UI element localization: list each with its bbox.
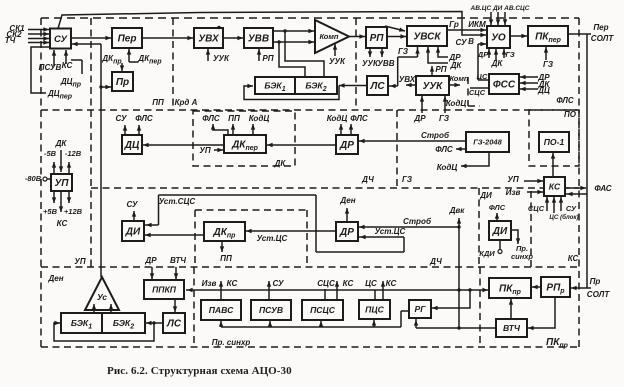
block SU: [50, 29, 71, 49]
arrow KS out of UP bottom: [59, 191, 63, 212]
svg-text:СУ: СУ: [115, 114, 127, 123]
svg-text:ГЗ: ГЗ: [398, 47, 409, 56]
arrow DR into UO bottom: [487, 49, 491, 58]
arrow bus up into PCS: [372, 320, 376, 327]
svg-text:ГЗ: ГЗ: [402, 175, 412, 184]
wire UVV to Comp upper: [273, 29, 314, 33]
svg-text:ДИ: ДИ: [125, 227, 141, 238]
block UVH: [194, 28, 223, 48]
arrow FLS up from DKper: [211, 124, 228, 135]
section label FLS: [556, 96, 574, 105]
label Strob: [421, 131, 450, 140]
block DKper: [224, 135, 266, 153]
block Per: [112, 28, 142, 48]
section divider x91 (UP | PP): [90, 18, 92, 267]
label FLS above DKper: [202, 114, 220, 123]
svg-text:ДЦ: ДЦ: [124, 140, 140, 151]
dashed jog near FSS: [468, 77, 480, 106]
svg-text:Пер: Пер: [593, 23, 608, 32]
label DR under UUK: [413, 114, 426, 123]
svg-text:Строб: Строб: [403, 217, 432, 226]
label SCS under KS: [528, 204, 545, 213]
label Gr: [449, 20, 459, 29]
label PP under DKpr: [220, 254, 232, 263]
block LS top: [367, 76, 388, 95]
svg-text:СОЛТ: СОЛТ: [591, 34, 615, 43]
svg-text:СОЛТ: СОЛТ: [587, 290, 611, 299]
section divider x531 (DI | KS): [530, 191, 532, 267]
label FLS above DI right: [489, 203, 506, 212]
label UP left of DKper: [199, 146, 210, 155]
section label PO: [564, 110, 577, 119]
label DKpr between Per and Pr: [101, 54, 122, 66]
label DR under UO: [477, 50, 489, 59]
wire KodC out of GZ-2048 bottom: [461, 152, 489, 168]
label RP above UUK: [435, 65, 446, 74]
block KS: [544, 177, 565, 196]
svg-text:-80В: -80В: [25, 174, 42, 183]
junction dot lower tap: [277, 40, 280, 43]
wire Strob into DR lower: [359, 225, 459, 229]
svg-text:КС: КС: [227, 279, 238, 288]
label DKper right: [137, 54, 162, 66]
arrow SCS-KS up from PSCS: [325, 281, 339, 300]
wire tap upper to BEK2 top: [285, 31, 324, 76]
section divider x480 (Pr.sinhr | PKpr): [479, 267, 481, 347]
block UP power: [51, 174, 72, 191]
svg-text:ПО: ПО: [564, 110, 577, 119]
arrow GZ into UO bottom: [502, 49, 506, 58]
svg-text:РП: РП: [370, 33, 385, 44]
block UUK: [416, 76, 449, 95]
svg-text:УО: УО: [491, 33, 506, 44]
outer dashed border top: [41, 17, 579, 19]
wire KS L-stub from SU right: [71, 60, 82, 74]
svg-text:Рис. 6.2. Структурная схема АЦ: Рис. 6.2. Структурная схема АЦО-30: [107, 365, 292, 377]
label SU under KS: [566, 204, 577, 213]
block BEK2 bottom: [102, 313, 145, 333]
svg-text:Уст.ЦС: Уст.ЦС: [257, 234, 288, 243]
svg-text:ГЗ-2048: ГЗ-2048: [473, 138, 502, 147]
label PSUV: [39, 63, 62, 72]
arrow UP into DKper: [214, 148, 223, 152]
svg-text:ДЦ: ДЦ: [537, 86, 550, 95]
block Pr: [112, 72, 133, 91]
section divider y188 horizontal: [91, 187, 579, 189]
outer dashed border bottom: [41, 346, 579, 348]
arrow RP into UVV bottom: [257, 49, 261, 61]
section divider x173 (PP | Krd A): [172, 18, 174, 110]
arrow SU into KS bottom: [559, 197, 563, 211]
label CS blok under KS: [549, 214, 578, 221]
arrow DK into UO bottom: [494, 49, 498, 60]
svg-text:ДК: ДК: [55, 139, 68, 148]
arrow CS into KS bottom: [552, 197, 556, 213]
svg-text:ГЗ: ГЗ: [543, 60, 554, 69]
arrow UUK into Comp bottom: [333, 44, 337, 56]
block PSUV: [251, 300, 291, 320]
svg-text:ВТЧ: ВТЧ: [170, 256, 186, 265]
label FLS above DR: [350, 114, 368, 123]
wire UO to PKper: [510, 34, 527, 38]
wire UVSK to UO: [447, 28, 486, 32]
wire DKper to DC: [143, 143, 224, 147]
label UVH left of UUK: [399, 75, 416, 84]
svg-text:КС: КС: [62, 61, 73, 70]
arrow Komp stub out of UUK right: [449, 83, 460, 87]
block GZ-2048: [466, 132, 509, 152]
svg-text:РГ: РГ: [414, 304, 426, 314]
arrow DKper up into Per: [127, 49, 138, 62]
wire RPr to PKpr: [532, 285, 541, 289]
svg-text:УВСК: УВСК: [413, 32, 441, 43]
svg-text:Строб: Строб: [421, 131, 450, 140]
label RP under UVV: [262, 54, 273, 63]
label UP left of KS: [507, 175, 518, 184]
svg-text:УВХ: УВХ: [399, 75, 416, 84]
label SU near UO: [455, 38, 467, 47]
svg-text:+5В: +5В: [43, 207, 58, 216]
svg-text:ДР: ДР: [477, 50, 489, 59]
block UVV: [244, 28, 273, 48]
svg-text:ВТЧ: ВТЧ: [503, 323, 521, 333]
svg-text:Гр: Гр: [449, 20, 459, 29]
svg-text:ФЛС: ФЛС: [489, 203, 506, 212]
arrow +5V out of UP bottom: [52, 191, 56, 203]
svg-text:Пер: Пер: [118, 34, 137, 45]
label SOLT in: [587, 290, 611, 299]
svg-text:ДР: ДР: [339, 227, 354, 238]
arrow UUK into UVH bottom: [206, 49, 210, 61]
arrow AV.SCS into UO top: [503, 12, 507, 25]
junction dot upper tap: [283, 29, 286, 32]
terminal circle -80V: [43, 177, 51, 181]
wire return into SU from vertical bus: [70, 42, 101, 46]
wire DCper bracket into SU: [31, 47, 49, 93]
label -12V above UP: [65, 149, 82, 158]
arrow VTCh into PPKP top: [174, 267, 178, 279]
section label GZ: [402, 175, 412, 184]
svg-text:ДЧ: ДЧ: [361, 175, 374, 184]
block PO-1: [539, 132, 569, 152]
wire feedback loop to BEK1: [54, 321, 154, 341]
label KodC above DKper: [249, 114, 270, 123]
wire feedback into BEK1 left: [244, 84, 339, 100]
wire branch into Pr: [99, 85, 111, 89]
wire VTCh to RG: [414, 319, 496, 328]
svg-text:КС: КС: [568, 254, 579, 263]
label SU above DI left: [126, 200, 138, 209]
svg-text:УУК: УУК: [329, 57, 346, 66]
label VTCh above PPKP: [170, 256, 186, 265]
svg-text:-12В: -12В: [65, 149, 82, 158]
arrow DK into UVSK bottom: [426, 47, 448, 63]
block UO: [487, 26, 510, 48]
svg-text:ФЛС: ФЛС: [135, 114, 153, 123]
wire LS to BEK2 bottom: [146, 321, 163, 325]
wire bus y290 PPKP to PKpr: [186, 288, 488, 292]
outer dashed border left: [40, 18, 42, 347]
block DI right: [489, 221, 511, 240]
arrow SU up from DI left: [132, 211, 136, 221]
svg-text:ГЗ: ГЗ: [505, 50, 515, 59]
label KS under SU: [62, 61, 73, 70]
svg-text:Ус: Ус: [97, 292, 107, 302]
wire Pr.sinhr out of DI right: [511, 230, 520, 244]
arrow DR up into UUK bottom: [420, 96, 424, 113]
svg-text:ИКМ: ИКМ: [468, 20, 486, 29]
label DK right of FSS: [538, 80, 551, 89]
wire bus down x316 and to Ust.CS: [316, 195, 404, 252]
arrow DKpr down into Pr: [120, 63, 124, 71]
label FLS left of GZ-2048: [435, 145, 453, 154]
arrow RP down to UVV label: [380, 48, 384, 57]
wire SCS out of FSS: [470, 87, 489, 89]
block DC: [122, 135, 142, 154]
wire KS up to PO-1: [551, 153, 555, 176]
label UUK under Comp: [329, 57, 346, 66]
label CS above PCS: [365, 279, 377, 288]
label GZ left of UVSK bottom: [398, 47, 409, 56]
dashed box PO around PO-1: [529, 110, 579, 166]
svg-text:КДИ: КДИ: [479, 249, 495, 258]
label Ust.CS near DKpr: [257, 234, 288, 243]
arrow Izv into KS: [527, 190, 543, 194]
svg-text:ФЛС: ФЛС: [435, 145, 453, 154]
wire V input to UO: [478, 42, 489, 80]
block PAVS: [201, 300, 241, 320]
svg-text:РП: РП: [262, 54, 273, 63]
svg-text:Крд А: Крд А: [175, 98, 198, 107]
block RG: [409, 300, 431, 318]
svg-text:СУ: СУ: [54, 34, 68, 45]
svg-text:ДК: ДК: [491, 59, 504, 68]
section divider y110 horizontal: [41, 109, 579, 111]
block PCS: [359, 300, 390, 319]
label DK under UO: [491, 59, 504, 68]
svg-text:КС: КС: [57, 219, 68, 228]
label FLS above DC: [135, 114, 153, 123]
svg-text:СУ: СУ: [126, 200, 138, 209]
label KS above PAVS: [227, 279, 238, 288]
label Per out: [593, 23, 608, 32]
arrow RP down to UUK label: [368, 48, 372, 57]
wire input 2 to SU: [28, 32, 49, 36]
label DCper under SU: [47, 89, 73, 101]
svg-text:Ден: Ден: [47, 274, 63, 283]
label DCpr under SU: [60, 77, 82, 89]
arrow DR into PPKP top: [150, 267, 154, 279]
label GZ under UUK: [439, 114, 450, 123]
label DR under UVSK: [448, 53, 461, 62]
arrow PPKP down to LS: [173, 299, 177, 312]
wire SU top bus to UO (IKM): [58, 12, 486, 38]
wire Dvk vertical: [457, 218, 461, 328]
section label Den: [47, 274, 63, 283]
svg-text:Пр: Пр: [590, 277, 601, 286]
label GZ under UO: [505, 50, 515, 59]
svg-text:КС: КС: [386, 279, 397, 288]
arrow bus up into PSCS: [319, 321, 323, 327]
label KodC under GZ-2048: [437, 163, 458, 172]
label KS above PSCS: [343, 279, 354, 288]
wire Strob GZ-2048 to DR: [359, 139, 466, 143]
section divider y267 horizontal: [41, 266, 579, 268]
label sinhr near DI: [511, 252, 533, 261]
svg-text:ПО-1: ПО-1: [544, 137, 565, 147]
svg-text:ППКП: ППКП: [152, 285, 177, 295]
block VTCh: [496, 319, 527, 337]
wire UVV to Comp lower: [273, 40, 314, 44]
svg-text:ДИ: ДИ: [479, 191, 492, 200]
section label DCh: [361, 175, 374, 184]
input ТЧ label: [5, 36, 16, 45]
block BEK2 top: [295, 77, 337, 94]
label +12V under UP: [64, 207, 83, 216]
arrow FLS out of GZ-2048: [456, 147, 466, 151]
wire GZ corner to LS and UVSK: [389, 47, 420, 88]
arrow VTCh up to PKpr: [509, 299, 513, 318]
arrow SU up from PSUV: [267, 281, 271, 300]
label Ust.SCS: [159, 197, 196, 206]
block PPKP: [144, 280, 184, 299]
arrow KodC up from DKper: [251, 124, 255, 134]
wire PCS second vertical: [374, 290, 376, 300]
diagonal annotation arrow into UVSK: [385, 26, 405, 32]
arrow GZ into PKper bottom: [544, 47, 548, 60]
svg-text:ФСС: ФСС: [493, 80, 516, 91]
svg-text:АВ.ЦС ДИ АВ.СЦС: АВ.ЦС ДИ АВ.СЦС: [470, 5, 530, 12]
arrow +12V out of UP bottom: [67, 191, 71, 203]
svg-text:УУК: УУК: [423, 81, 444, 92]
label AV CS DI AV SCS: [470, 5, 530, 12]
label -5V above UP: [44, 149, 57, 158]
dashed box around DKpr: [195, 210, 307, 266]
junction dot Strob-Dvk: [457, 225, 460, 228]
amplifier Us triangle: [85, 277, 119, 310]
arrow PSUV into SU bottom: [52, 50, 56, 66]
svg-text:ПП: ПП: [228, 114, 240, 123]
svg-text:ДК: ДК: [450, 61, 463, 70]
svg-text:ЛС: ЛС: [166, 319, 182, 330]
wire RP to UVSK: [387, 34, 406, 38]
svg-text:Уст.ЦС: Уст.ЦС: [375, 227, 406, 236]
svg-text:СУ: СУ: [455, 38, 467, 47]
svg-text:Изв: Изв: [202, 279, 217, 288]
svg-text:УП: УП: [55, 178, 70, 189]
svg-text:ПАВС: ПАВС: [209, 305, 234, 315]
block DI left: [122, 221, 144, 241]
wire branch into KS right edge: [566, 192, 587, 196]
label UVV under RP: [377, 59, 394, 68]
arrow BEK2 up into Us: [109, 304, 113, 313]
svg-text:КС: КС: [343, 279, 354, 288]
label Komp right of UUK: [449, 74, 468, 83]
block RP: [366, 27, 387, 48]
label Dvk: [449, 206, 466, 215]
junction dot VTCh line: [457, 326, 460, 329]
wire tap lower to BEK2 top: [279, 42, 305, 76]
wire LS to BEK2: [339, 83, 367, 87]
svg-text:ЦС: ЦС: [365, 279, 377, 288]
arrow bus up into PAVS: [219, 321, 223, 327]
section divider x194 (Den | Pr.sinhr): [193, 267, 195, 347]
junction dot feedback: [152, 321, 155, 324]
arrow UVH stub out of UUK left: [406, 83, 416, 87]
arrow -5V up from UP top: [52, 162, 56, 174]
svg-text:УП: УП: [199, 146, 210, 155]
svg-text:КС: КС: [549, 182, 561, 192]
svg-text:ДК: ДК: [274, 159, 287, 168]
arrow DR into UVSK bottom: [436, 47, 448, 57]
caption: [107, 365, 292, 377]
svg-text:Комп: Комп: [319, 32, 338, 41]
svg-text:УВВ: УВВ: [248, 34, 269, 45]
label +5V under UP: [43, 207, 58, 216]
wire Pr SOLT into RPr: [571, 286, 591, 290]
label FAS right of KS: [594, 184, 611, 193]
section label DI: [479, 191, 492, 200]
svg-text:Пр: Пр: [116, 77, 129, 88]
svg-text:Пр. синхр: Пр. синхр: [212, 338, 251, 347]
label IKM: [468, 20, 486, 29]
label DC right of FSS: [537, 86, 550, 95]
label Izv left of KS: [506, 188, 521, 197]
svg-text:Двк: Двк: [449, 206, 466, 215]
arrow GZ up into UUK bottom: [443, 96, 447, 113]
label SU above PSUV: [272, 279, 284, 288]
svg-text:УВХ: УВХ: [198, 34, 220, 45]
arrow SCS into KS bottom: [545, 197, 549, 211]
svg-text:КодЦ: КодЦ: [437, 163, 458, 172]
arrow UP into KS: [524, 179, 543, 183]
section label Pr.sinhr: [212, 338, 251, 347]
svg-text:СЦС: СЦС: [528, 204, 545, 213]
block DR middle: [336, 135, 358, 154]
svg-text:СУ: СУ: [272, 279, 284, 288]
svg-text:ДИ: ДИ: [492, 226, 508, 237]
svg-text:ФЛС: ФЛС: [350, 114, 368, 123]
block FSS: [489, 74, 519, 94]
svg-text:СЦС: СЦС: [317, 279, 335, 288]
label KS above PCS: [386, 279, 397, 288]
arrow DK down into UP top: [59, 150, 63, 172]
svg-text:ФЛС: ФЛС: [202, 114, 220, 123]
section divider x397 (DCh | GZ): [396, 110, 398, 188]
section label DCh lower: [429, 257, 442, 266]
svg-text:РП: РП: [435, 65, 446, 74]
wire bus to RG right: [432, 290, 470, 310]
dashed box DK around DKper: [193, 111, 295, 166]
wire UVH to UVV: [223, 36, 243, 40]
junction dot on UVH top edge: [217, 26, 220, 29]
label DR above PPKP: [144, 256, 157, 265]
label SU above DC: [115, 114, 127, 123]
arrow FLS up from DC: [137, 125, 141, 135]
svg-text:ТЧ: ТЧ: [5, 36, 16, 45]
svg-text:ДР: ДР: [413, 114, 426, 123]
svg-text:КодЦ: КодЦ: [327, 114, 348, 123]
arrow bus up into PSUV: [268, 321, 272, 327]
svg-text:ЦС: ЦС: [477, 72, 488, 81]
arrow FAS out of KS: [565, 186, 586, 190]
arrow KodC up from DR: [339, 124, 343, 134]
arrow -12V up from UP top: [67, 162, 71, 174]
wire RPr down to VTCh: [528, 297, 555, 330]
svg-text:ГЗ: ГЗ: [439, 114, 450, 123]
wire PKper out to Per SOLT: [568, 33, 591, 35]
label SOLT out: [591, 34, 615, 43]
